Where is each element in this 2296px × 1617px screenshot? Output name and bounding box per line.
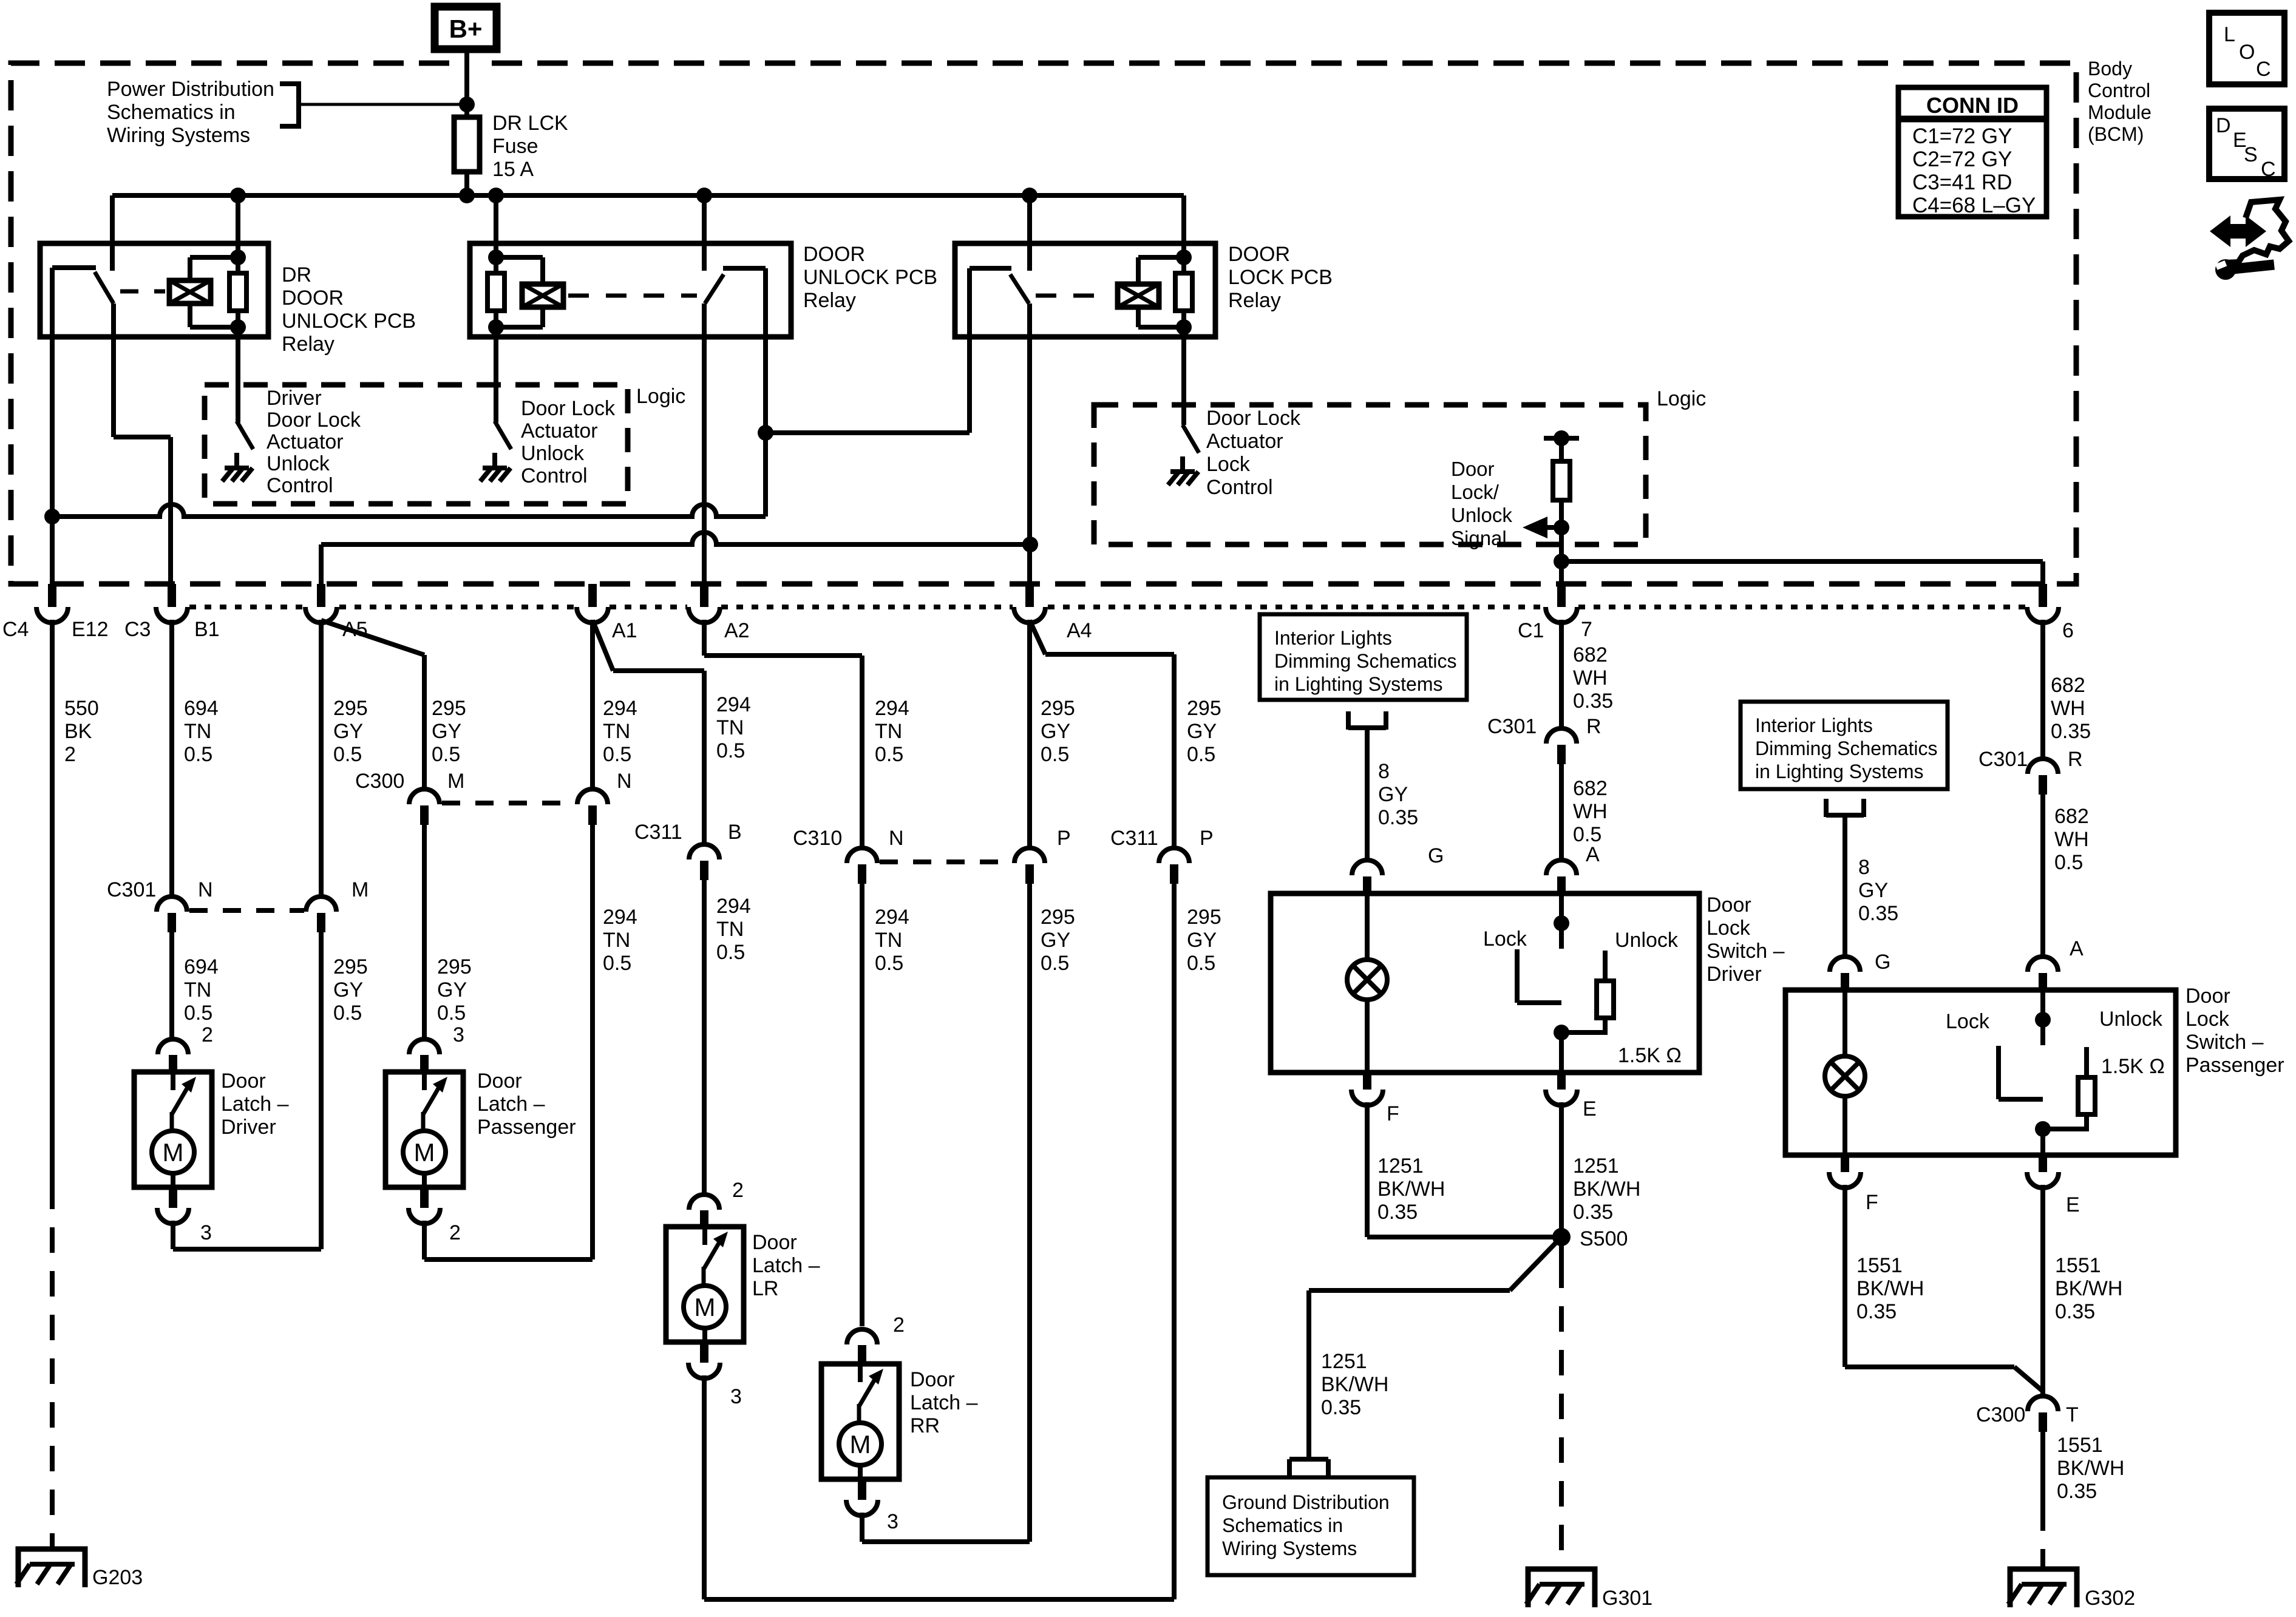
relay K2 switch (704, 243, 766, 337)
svg-text:682: 682 (1573, 777, 1608, 800)
wire signal bus to pin 6 (1561, 561, 2043, 584)
svg-text:295: 295 (1187, 906, 1221, 929)
svg-text:M: M (352, 878, 369, 901)
relay K2 mech link (568, 294, 697, 298)
svg-text:GY: GY (1858, 879, 1888, 902)
label 7 (1581, 618, 1592, 641)
svg-text:Ground Distribution: Ground Distribution (1222, 1491, 1390, 1513)
wire 694 TN 0.5 to driver latch (169, 932, 174, 1040)
svg-text:0.35: 0.35 (1378, 806, 1418, 829)
wire B+ down to fuse (464, 49, 469, 120)
logic box (unlock drivers) dashed (205, 385, 628, 504)
wire C300-N to passenger latch return (590, 825, 595, 1259)
svg-text:E: E (1583, 1097, 1597, 1120)
wire passenger latch return (424, 1221, 593, 1259)
label C4 (2, 618, 29, 641)
svg-text:Door Lock: Door Lock (1206, 407, 1301, 430)
wire 8 GY 0.35 (driver) (1365, 728, 1370, 861)
connector C300 pin T (2028, 1396, 2058, 1432)
ground (logic) for K3 driver (1168, 456, 1198, 485)
label wire 295 GY 0.5 (A4) (1041, 697, 1075, 766)
LOC reference box (2209, 13, 2284, 84)
connector C311 pin P (1159, 848, 1189, 884)
svg-text:Unlock: Unlock (267, 452, 330, 475)
wire E 1551 BK/WH 0.35 (passenger) (2040, 1185, 2045, 1396)
svg-text:Control: Control (1206, 476, 1273, 499)
svg-text:E12: E12 (72, 618, 109, 641)
label: Door Lock Actuator Lock Control (1206, 407, 1301, 499)
wire A2 jog to C310-N (704, 620, 862, 849)
svg-text:C3=41 RD: C3=41 RD (1912, 171, 2012, 194)
connector F (passenger switch) (1829, 1155, 1878, 1214)
svg-text:TN: TN (603, 720, 630, 743)
svg-text:Relay: Relay (803, 289, 856, 312)
svg-text:2: 2 (64, 743, 76, 766)
CONN ID table (1898, 87, 2046, 217)
relay K1 label (282, 263, 416, 356)
svg-text:M: M (163, 1138, 184, 1167)
svg-text:0.5: 0.5 (603, 743, 631, 766)
svg-text:in Lighting Systems: in Lighting Systems (1755, 761, 1923, 782)
connector C301 pin R (passenger) (2028, 759, 2058, 795)
svg-text:N: N (198, 878, 213, 901)
svg-text:TN: TN (184, 978, 211, 1002)
svg-text:Lock: Lock (1707, 917, 1751, 940)
svg-text:Switch –: Switch – (1707, 940, 1785, 963)
label Logic (right) (1657, 387, 1706, 410)
svg-text:S: S (2244, 143, 2258, 166)
relay K1 coil (169, 249, 246, 335)
svg-text:7: 7 (1581, 618, 1592, 641)
svg-text:1551: 1551 (2057, 1434, 2103, 1457)
svg-text:GY: GY (1187, 929, 1217, 952)
svg-text:Lock: Lock (1946, 1010, 1990, 1033)
svg-text:Module: Module (2088, 101, 2152, 123)
wire LR latch return (704, 1375, 1174, 1599)
svg-text:L: L (2224, 23, 2235, 46)
svg-text:G302: G302 (2085, 1587, 2135, 1610)
label Lock (driver) (1483, 927, 1527, 951)
svg-text:C4=68 L–GY: C4=68 L–GY (1912, 194, 2036, 217)
relay K1 box: DR DOOR UNLOCK PCB Relay (40, 243, 268, 337)
svg-text:LR: LR (752, 1277, 778, 1300)
wire E 1251 BK/WH 0.35 (driver) (1559, 1102, 1564, 1263)
svg-text:R: R (1586, 715, 1601, 738)
svg-text:Wiring Systems: Wiring Systems (107, 124, 250, 147)
svg-text:G301: G301 (1602, 1587, 1652, 1610)
relay K1 coil suppression resistor (229, 273, 246, 311)
label C311 B (634, 821, 742, 844)
connector C310 pin P (1014, 848, 1045, 884)
wire F 1251 BK/WH 0.35 (driver) (1367, 1102, 1561, 1237)
svg-text:Lock: Lock (1206, 453, 1251, 476)
wire E12 to ground (solid part) 550 BK 2 (50, 620, 55, 1184)
wire relay K2 coil to unlock control switch (494, 327, 498, 422)
svg-text:6: 6 (2062, 619, 2074, 642)
svg-text:Control: Control (267, 474, 333, 497)
svg-text:C: C (2256, 58, 2271, 81)
wire A5 branch diagonal to C300-M (321, 620, 424, 790)
wire relay K3 lever to pin A4 (1027, 303, 1032, 584)
wire A4 to C310-P 295 GY 0.5 (1027, 620, 1032, 849)
svg-text:682: 682 (2051, 674, 2085, 697)
svg-text:Latch –: Latch – (221, 1093, 289, 1116)
label A5 (342, 618, 368, 641)
svg-text:295: 295 (1187, 697, 1221, 720)
svg-text:WH: WH (2051, 697, 2085, 720)
connector RR latch pin 2 (847, 1314, 905, 1364)
label wire 1251 BK/WH 0.35 (to gnd dist) (1321, 1350, 1388, 1419)
svg-text:G: G (1875, 951, 1890, 974)
svg-text:E: E (2066, 1193, 2080, 1216)
svg-text:A: A (2070, 937, 2084, 960)
svg-text:A4: A4 (1067, 619, 1092, 642)
label wire 1551 BK/WH 0.35 (F passenger) (1856, 1254, 1924, 1323)
svg-text:1.5K Ω: 1.5K Ω (1618, 1044, 1682, 1067)
svg-text:Dimming Schematics: Dimming Schematics (1274, 650, 1457, 672)
wire 682 WH 0.5 to passenger switch A (2040, 795, 2045, 957)
svg-text:Passenger: Passenger (477, 1116, 576, 1139)
wire A4 branch to C311-P (1030, 620, 1174, 849)
label wire 294 TN 0.5 (A1) (603, 697, 637, 766)
svg-text:295: 295 (432, 697, 466, 720)
label Unlock (passenger) (2099, 1008, 2163, 1031)
svg-text:GY: GY (1041, 929, 1070, 952)
label 1.5K ohm (driver) (1618, 1044, 1682, 1067)
wire S500 to ground distribution (1309, 1237, 1561, 1458)
door lock switch - driver (S1) (1271, 893, 1699, 1073)
svg-text:Schematics in: Schematics in (107, 101, 236, 124)
wire note-bracket to fuse node (299, 97, 475, 112)
svg-text:Door: Door (910, 1368, 955, 1391)
wire 8 GY 0.35 (passenger) (1843, 815, 1847, 958)
svg-text:Switch –: Switch – (2186, 1031, 2264, 1054)
door lock/unlock signal terminal bar (1544, 430, 1579, 446)
connector pin C3/B1 at BCM (156, 584, 188, 623)
svg-text:Unlock: Unlock (2099, 1008, 2163, 1031)
svg-text:0.5: 0.5 (2054, 851, 2083, 874)
svg-text:Latch –: Latch – (910, 1391, 978, 1414)
door latch - passenger (M2) (385, 1072, 463, 1187)
wire driver latch return (173, 1221, 321, 1249)
svg-text:WH: WH (1573, 666, 1608, 690)
svg-text:0.5: 0.5 (603, 952, 631, 975)
connector C300 pin N (577, 789, 608, 825)
signal pull resistor (1553, 461, 1570, 500)
wire B1 to C301-N 694 TN 0.5 (169, 620, 174, 898)
svg-text:Body: Body (2088, 58, 2132, 80)
label Unlock (driver) (1615, 929, 1679, 952)
svg-text:N: N (889, 827, 904, 850)
connector pin A1 at BCM (577, 584, 608, 623)
svg-text:1251: 1251 (1573, 1154, 1619, 1178)
connector row dotted line (189, 605, 2026, 609)
svg-text:Actuator: Actuator (267, 430, 344, 453)
label wire 8 GY 0.35 (passenger) (1858, 856, 1898, 925)
svg-text:Unlock: Unlock (1615, 929, 1679, 952)
svg-text:0.35: 0.35 (1573, 690, 1613, 713)
hotlink icon arrow + wrench (2210, 200, 2289, 280)
connector pin A4 at BCM (1014, 584, 1045, 623)
svg-text:0.35: 0.35 (2057, 1480, 2097, 1503)
svg-text:F: F (1866, 1191, 1878, 1214)
label wire 295 GY 0.5 (below C311-P) (1187, 906, 1221, 975)
wire bus to relay K2 contact (702, 195, 707, 271)
label Door Lock Switch - Passenger (2186, 985, 2284, 1077)
off-page bracket (passenger dimming) (1826, 799, 1864, 817)
svg-text:0.35: 0.35 (1856, 1300, 1897, 1323)
svg-text:TN: TN (716, 716, 744, 739)
label C301 N (107, 878, 213, 901)
wire relay K1 contact to pin B1 (114, 303, 171, 584)
relay K2 label (803, 243, 937, 312)
svg-text:0.5: 0.5 (1041, 952, 1069, 975)
svg-text:Door: Door (221, 1070, 266, 1093)
label wire 295 GY 0.5 (A5) (333, 697, 368, 766)
svg-text:TN: TN (184, 720, 211, 743)
svg-text:Relay: Relay (1228, 289, 1281, 312)
svg-text:682: 682 (1573, 643, 1608, 666)
wire C311-B to LR latch (702, 880, 707, 1195)
svg-text:TN: TN (603, 929, 630, 952)
svg-text:2: 2 (449, 1221, 461, 1244)
svg-text:3: 3 (200, 1221, 212, 1244)
label 1.5K ohm (passenger) (2101, 1055, 2165, 1078)
signal direction arrow (1523, 517, 1569, 538)
svg-text:C4: C4 (2, 618, 29, 641)
ground (logic) for K1 driver (222, 453, 253, 481)
svg-text:F: F (1387, 1102, 1399, 1125)
svg-text:G: G (1428, 844, 1444, 867)
svg-text:294: 294 (603, 906, 637, 929)
svg-text:0.5: 0.5 (333, 743, 362, 766)
label: Door Lock Actuator Unlock Control (521, 397, 616, 487)
svg-text:1251: 1251 (1321, 1350, 1367, 1373)
relay K1 mech link (120, 290, 165, 294)
svg-text:A2: A2 (724, 619, 750, 642)
svg-text:Lock: Lock (1483, 927, 1527, 951)
interior lights dimming note box (passenger) (1741, 702, 1948, 789)
junction dot signal to pin-6 bus (1554, 554, 1569, 569)
junction dot line-B at A4 wire (1022, 537, 1038, 552)
svg-text:1551: 1551 (2055, 1254, 2101, 1277)
svg-text:DOOR: DOOR (282, 286, 344, 310)
svg-text:C311: C311 (1110, 827, 1158, 850)
svg-text:294: 294 (716, 895, 751, 918)
svg-text:Unlock: Unlock (1451, 504, 1512, 526)
connector G (driver switch) (1352, 860, 1382, 893)
svg-text:Latch –: Latch – (752, 1254, 820, 1277)
connector C311 pin B (689, 844, 719, 880)
svg-text:WH: WH (1573, 800, 1608, 823)
svg-text:BK/WH: BK/WH (2055, 1277, 2122, 1300)
svg-text:GY: GY (1378, 783, 1408, 806)
svg-text:0.5: 0.5 (875, 952, 903, 975)
label wire 295 GY 0.5 (branch) (432, 697, 466, 766)
svg-text:M: M (695, 1293, 716, 1321)
svg-text:P: P (1057, 827, 1071, 850)
connector C301 pin M (306, 897, 336, 932)
connector passenger latch pin 3 (409, 1023, 464, 1072)
wire relay K1 coil to unlock control switch (236, 327, 240, 422)
relay K3 mech link (1036, 294, 1111, 298)
label wire 294 TN 0.5 (below C300) (603, 906, 637, 975)
label C301 M (352, 878, 369, 901)
svg-text:TN: TN (716, 918, 744, 941)
wire E12 dashed continuation (50, 1184, 55, 1549)
label wire 295 GY 0.5 (driver latch) (333, 955, 368, 1025)
svg-text:A: A (1586, 843, 1600, 866)
ground G302 (2008, 1569, 2135, 1610)
label C301 R (driver) (1487, 715, 1601, 738)
relay K2 coil (488, 249, 563, 335)
svg-text:BK/WH: BK/WH (1321, 1373, 1388, 1396)
svg-text:Passenger: Passenger (2186, 1054, 2284, 1077)
ground G203 (16, 1549, 143, 1589)
label G (driver switch) (1428, 844, 1444, 867)
connector C301 pin N (157, 897, 187, 932)
svg-text:Unlock: Unlock (521, 442, 585, 465)
svg-text:Lock: Lock (2186, 1008, 2230, 1031)
wire relay K2 lever to pin A2 (702, 303, 707, 584)
svg-text:Control: Control (521, 464, 588, 487)
svg-text:M: M (850, 1430, 871, 1459)
connector pin C4/E12 at BCM (36, 584, 68, 623)
wire bus to relay K1 coil (236, 195, 240, 257)
label wire 295 GY 0.5 (below C310-P) (1041, 906, 1075, 975)
svg-text:Actuator: Actuator (1206, 430, 1283, 453)
splice S500 (1552, 1227, 1628, 1250)
connector C301 pin R (driver) (1546, 728, 1577, 764)
label wire 682 WH 0.5 (driver) (1573, 777, 1608, 846)
wire bus to relay K3 contact (1027, 195, 1032, 271)
connector C310 pin N (847, 848, 877, 884)
wire A1 branch to C311-B (593, 620, 704, 846)
svg-text:3: 3 (887, 1510, 898, 1533)
wire C1-7 682 WH 0.35 (1559, 620, 1564, 730)
label B1 (194, 618, 220, 641)
battery feed B+ box (435, 7, 497, 49)
label wire 294 TN 0.5 (RR latch) (875, 906, 909, 975)
svg-text:M: M (447, 770, 464, 793)
svg-text:294: 294 (875, 906, 909, 929)
svg-text:294: 294 (875, 697, 909, 720)
connector pin C1/7 at BCM (1546, 584, 1577, 623)
relay K2 box: DOOR UNLOCK PCB Relay (470, 243, 791, 337)
Body Control Module (BCM) dashed boundary box (11, 63, 2076, 584)
label G (passenger switch) (1875, 951, 1890, 974)
label wire 295 GY 0.5 (passenger latch) (437, 955, 472, 1025)
label wire 694 TN 0.5 (lower) (184, 955, 219, 1025)
svg-text:Actuator: Actuator (521, 419, 598, 442)
label wire 1551 BK/WH 0.35 (E passenger) (2055, 1254, 2122, 1323)
svg-text:694: 694 (184, 697, 219, 720)
connector E (driver switch) (1546, 1073, 1597, 1120)
svg-text:(BCM): (BCM) (2088, 123, 2144, 145)
svg-text:N: N (617, 770, 632, 793)
svg-text:0.5: 0.5 (875, 743, 903, 766)
svg-text:0.5: 0.5 (432, 743, 460, 766)
svg-text:0.5: 0.5 (716, 941, 745, 964)
svg-text:295: 295 (333, 955, 368, 978)
label wire 682 WH 0.35 (passenger) (2051, 674, 2091, 743)
label C1 (1518, 619, 1544, 642)
label Door Latch - Passenger (477, 1070, 576, 1139)
svg-text:0.5: 0.5 (184, 1002, 212, 1025)
svg-text:BK/WH: BK/WH (1377, 1178, 1445, 1201)
svg-text:Driver: Driver (221, 1116, 276, 1139)
wire bus to relay K3 coil (1181, 195, 1186, 257)
label wire 294 TN 0.5 (LR latch) (716, 895, 751, 964)
label wire 1251 BK/WH 0.35 (F driver) (1377, 1154, 1445, 1224)
door latch - RR (M4) (821, 1364, 899, 1479)
ground (logic) for K2 driver (480, 453, 511, 481)
svg-text:3: 3 (730, 1385, 742, 1408)
wire line-B: pin A5 to relay K3 output (321, 532, 1030, 584)
note: Power Distribution Schematics in Wiring Systems (107, 78, 274, 147)
connector E (passenger switch) (2027, 1155, 2080, 1216)
svg-text:Door: Door (2186, 985, 2230, 1008)
svg-text:295: 295 (437, 955, 472, 978)
svg-text:R: R (2068, 748, 2083, 771)
svg-text:295: 295 (333, 697, 368, 720)
svg-text:Door: Door (477, 1070, 522, 1093)
svg-text:in Lighting Systems: in Lighting Systems (1274, 673, 1442, 695)
connector pin A2 at BCM (688, 584, 720, 623)
wire A5 to C301-M 295 GY 0.5 (319, 620, 324, 898)
svg-text:Fuse: Fuse (492, 135, 538, 158)
svg-text:3: 3 (453, 1023, 464, 1046)
svg-text:O: O (2239, 41, 2255, 64)
svg-text:Interior Lights: Interior Lights (1274, 627, 1392, 649)
svg-text:Interior Lights: Interior Lights (1755, 714, 1873, 736)
label C311 P (1110, 827, 1214, 850)
connector pin A5 at BCM (305, 584, 337, 623)
logic box (lock driver / signal) dashed (1094, 405, 1646, 544)
svg-text:LOCK PCB: LOCK PCB (1228, 266, 1333, 289)
label A1 (612, 619, 637, 642)
door latch - LR (M3) (666, 1227, 744, 1342)
svg-text:C301: C301 (1487, 715, 1537, 738)
label wire 294 TN 0.5 (A1 branch) (716, 693, 751, 762)
label Door Latch - RR (910, 1368, 978, 1437)
label C301 R (passenger) (1978, 748, 2083, 771)
label Door Latch - Driver (221, 1070, 289, 1139)
relay K3 label (1228, 243, 1333, 312)
svg-text:1551: 1551 (1856, 1254, 1903, 1277)
wire F 1551 BK/WH 0.35 (passenger) (1845, 1185, 2043, 1391)
svg-text:0.35: 0.35 (1321, 1396, 1361, 1419)
wire C310-P to RR latch return (1027, 884, 1032, 1542)
label wire 682 WH 0.5 (passenger) (2054, 805, 2089, 874)
svg-text:G203: G203 (92, 1566, 143, 1589)
wire bus to relay K1 contact (110, 195, 115, 271)
wire RR latch return (862, 1513, 1030, 1542)
svg-text:TN: TN (875, 720, 902, 743)
svg-text:DOOR: DOOR (803, 243, 865, 266)
svg-text:Logic: Logic (636, 385, 685, 408)
svg-text:C1=72 GY: C1=72 GY (1912, 124, 2012, 148)
svg-text:BK/WH: BK/WH (1573, 1178, 1640, 1201)
svg-text:S500: S500 (1580, 1227, 1628, 1250)
svg-text:C2=72 GY: C2=72 GY (1912, 147, 2012, 171)
interior lights dimming note box (driver) (1260, 614, 1467, 700)
label Door Latch - LR (752, 1231, 820, 1300)
svg-text:Signal: Signal (1451, 527, 1507, 549)
ground distribution note box (1207, 1477, 1414, 1575)
svg-text:Door: Door (1707, 893, 1751, 917)
label A2 (724, 619, 750, 642)
